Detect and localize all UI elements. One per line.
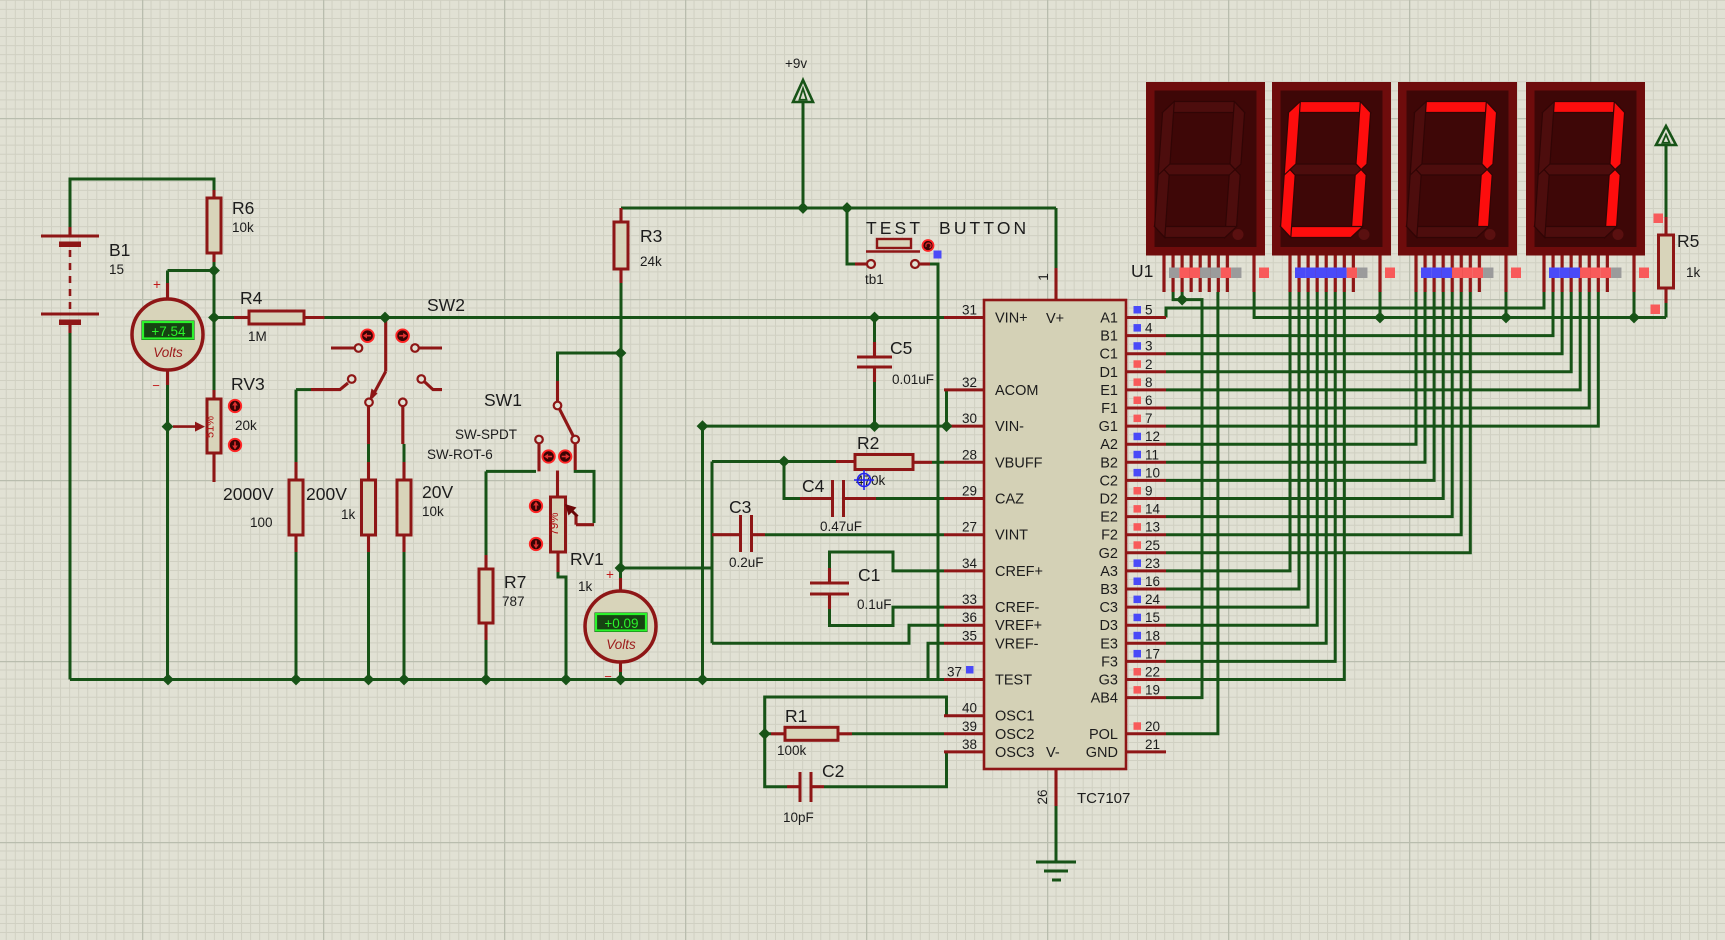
svg-text:1k: 1k bbox=[1686, 265, 1701, 280]
svg-text:A1: A1 bbox=[1100, 311, 1118, 327]
svg-text:E2: E2 bbox=[1100, 510, 1118, 526]
svg-text:D1: D1 bbox=[1099, 365, 1118, 381]
svg-text:0.01uF: 0.01uF bbox=[892, 372, 934, 387]
svg-text:2: 2 bbox=[1145, 357, 1153, 372]
svg-text:17: 17 bbox=[1145, 646, 1160, 661]
svg-text:C4: C4 bbox=[802, 476, 825, 496]
svg-text:OSC3: OSC3 bbox=[995, 745, 1035, 761]
svg-text:D2: D2 bbox=[1099, 492, 1118, 508]
svg-text:SW-ROT-6: SW-ROT-6 bbox=[427, 447, 493, 462]
svg-text:32: 32 bbox=[962, 375, 977, 390]
svg-text:26: 26 bbox=[1035, 789, 1050, 804]
svg-text:CREF+: CREF+ bbox=[995, 564, 1043, 580]
svg-text:U1: U1 bbox=[1131, 261, 1153, 281]
svg-text:B3: B3 bbox=[1100, 582, 1118, 598]
svg-text:7: 7 bbox=[1145, 411, 1153, 426]
svg-text:10k: 10k bbox=[232, 220, 254, 235]
svg-text:TC7107: TC7107 bbox=[1077, 790, 1130, 807]
svg-text:18: 18 bbox=[1145, 628, 1160, 643]
svg-text:36: 36 bbox=[962, 610, 977, 625]
svg-text:−: − bbox=[152, 378, 160, 393]
svg-text:G1: G1 bbox=[1099, 419, 1118, 435]
svg-text:SW2: SW2 bbox=[427, 295, 465, 315]
svg-text:22: 22 bbox=[1145, 665, 1160, 680]
svg-text:VIN+: VIN+ bbox=[995, 311, 1028, 327]
svg-text:C1: C1 bbox=[1099, 347, 1118, 363]
svg-text:VREF-: VREF- bbox=[995, 636, 1039, 652]
svg-text:R5: R5 bbox=[1677, 231, 1699, 251]
svg-text:3: 3 bbox=[1145, 339, 1153, 354]
svg-text:ACOM: ACOM bbox=[995, 383, 1039, 399]
svg-text:21: 21 bbox=[1145, 737, 1160, 752]
svg-text:R6: R6 bbox=[232, 198, 254, 218]
svg-text:40: 40 bbox=[962, 701, 977, 716]
svg-text:23: 23 bbox=[1145, 556, 1160, 571]
svg-text:0.47uF: 0.47uF bbox=[820, 519, 862, 534]
svg-text:D3: D3 bbox=[1099, 618, 1118, 634]
svg-text:19: 19 bbox=[1145, 683, 1160, 698]
svg-text:B1: B1 bbox=[1100, 329, 1118, 345]
svg-text:5: 5 bbox=[1145, 303, 1153, 318]
svg-text:+7.54: +7.54 bbox=[151, 324, 186, 339]
svg-text:29: 29 bbox=[962, 484, 977, 499]
svg-text:OSC1: OSC1 bbox=[995, 709, 1035, 725]
svg-text:VBUFF: VBUFF bbox=[995, 455, 1043, 471]
svg-text:AB4: AB4 bbox=[1091, 691, 1118, 707]
svg-text:0.1uF: 0.1uF bbox=[857, 597, 892, 612]
svg-text:G2: G2 bbox=[1099, 546, 1118, 562]
svg-text:G3: G3 bbox=[1099, 673, 1118, 689]
svg-text:POL: POL bbox=[1089, 727, 1118, 743]
svg-text:31: 31 bbox=[962, 303, 977, 318]
svg-text:24k: 24k bbox=[640, 254, 662, 269]
svg-text:20: 20 bbox=[1145, 719, 1160, 734]
svg-text:A2: A2 bbox=[1100, 437, 1118, 453]
svg-text:8: 8 bbox=[1145, 375, 1153, 390]
svg-text:+9v: +9v bbox=[785, 56, 807, 71]
svg-text:F1: F1 bbox=[1101, 401, 1118, 417]
svg-text:35: 35 bbox=[962, 628, 977, 643]
svg-text:GND: GND bbox=[1086, 745, 1118, 761]
svg-text:TEST: TEST bbox=[995, 673, 1032, 689]
svg-text:RV1: RV1 bbox=[570, 549, 604, 569]
svg-text:F3: F3 bbox=[1101, 654, 1118, 670]
svg-text:R3: R3 bbox=[640, 226, 662, 246]
svg-text:37: 37 bbox=[947, 665, 962, 680]
svg-text:C2: C2 bbox=[822, 761, 844, 781]
svg-text:51%: 51% bbox=[205, 416, 217, 438]
svg-text:C3: C3 bbox=[729, 497, 751, 517]
svg-text:R1: R1 bbox=[785, 706, 807, 726]
svg-text:16: 16 bbox=[1145, 574, 1160, 589]
svg-text:30: 30 bbox=[962, 411, 977, 426]
svg-text:VINT: VINT bbox=[995, 528, 1028, 544]
svg-text:13: 13 bbox=[1145, 520, 1160, 535]
svg-text:−: − bbox=[604, 669, 612, 684]
svg-text:F2: F2 bbox=[1101, 528, 1118, 544]
svg-text:79%: 79% bbox=[549, 512, 561, 535]
svg-text:C2: C2 bbox=[1099, 473, 1118, 489]
svg-text:12: 12 bbox=[1145, 429, 1160, 444]
svg-text:R7: R7 bbox=[504, 572, 526, 592]
svg-text:9: 9 bbox=[1145, 484, 1153, 499]
svg-text:20V: 20V bbox=[422, 482, 453, 502]
svg-text:24: 24 bbox=[1145, 592, 1161, 607]
svg-text:6: 6 bbox=[1145, 393, 1153, 408]
svg-text:33: 33 bbox=[962, 592, 977, 607]
svg-text:100k: 100k bbox=[777, 743, 807, 758]
svg-text:C1: C1 bbox=[858, 565, 880, 585]
svg-text:1: 1 bbox=[1036, 273, 1051, 281]
svg-text:CAZ: CAZ bbox=[995, 492, 1024, 508]
svg-text:VIN-: VIN- bbox=[995, 419, 1024, 435]
svg-text:V-: V- bbox=[1046, 745, 1060, 761]
svg-text:A3: A3 bbox=[1100, 564, 1118, 580]
svg-text:20k: 20k bbox=[235, 418, 257, 433]
svg-text:34: 34 bbox=[962, 556, 978, 571]
svg-text:1M: 1M bbox=[248, 329, 267, 344]
svg-text:4: 4 bbox=[1145, 321, 1153, 336]
svg-text:27: 27 bbox=[962, 520, 977, 535]
svg-text:15: 15 bbox=[1145, 610, 1160, 625]
svg-text:B1: B1 bbox=[109, 240, 130, 260]
svg-text:25: 25 bbox=[1145, 538, 1160, 553]
svg-text:B2: B2 bbox=[1100, 455, 1118, 471]
svg-text:787: 787 bbox=[502, 594, 525, 609]
svg-text:R2: R2 bbox=[857, 433, 879, 453]
svg-text:SW-SPDT: SW-SPDT bbox=[455, 427, 517, 442]
svg-text:+: + bbox=[153, 277, 161, 292]
svg-text:E1: E1 bbox=[1100, 383, 1118, 399]
svg-text:10: 10 bbox=[1145, 465, 1160, 480]
svg-text:Volts: Volts bbox=[606, 637, 636, 652]
svg-text:R4: R4 bbox=[240, 288, 263, 308]
svg-text:+0.09: +0.09 bbox=[604, 616, 638, 631]
svg-text:VREF+: VREF+ bbox=[995, 618, 1042, 634]
svg-text:TEST BUTTON: TEST BUTTON bbox=[866, 218, 1029, 238]
svg-text:39: 39 bbox=[962, 719, 977, 734]
svg-text:0.2uF: 0.2uF bbox=[729, 555, 764, 570]
svg-text:Volts: Volts bbox=[153, 345, 183, 360]
svg-text:10k: 10k bbox=[422, 504, 444, 519]
svg-text:38: 38 bbox=[962, 737, 977, 752]
svg-text:15: 15 bbox=[109, 262, 124, 277]
svg-text:V+: V+ bbox=[1046, 311, 1064, 327]
svg-text:RV3: RV3 bbox=[231, 374, 265, 394]
svg-text:+: + bbox=[606, 567, 614, 582]
svg-text:1k: 1k bbox=[578, 579, 593, 594]
svg-text:14: 14 bbox=[1145, 502, 1161, 517]
svg-text:100: 100 bbox=[250, 515, 273, 530]
svg-text:tb1: tb1 bbox=[865, 272, 884, 287]
svg-text:C5: C5 bbox=[890, 338, 912, 358]
svg-text:10pF: 10pF bbox=[783, 810, 814, 825]
svg-text:SW1: SW1 bbox=[484, 390, 522, 410]
svg-text:C3: C3 bbox=[1099, 600, 1118, 616]
svg-text:28: 28 bbox=[962, 447, 977, 462]
svg-text:200V: 200V bbox=[306, 484, 347, 504]
svg-text:OSC2: OSC2 bbox=[995, 727, 1035, 743]
svg-text:E3: E3 bbox=[1100, 636, 1118, 652]
svg-text:2000V: 2000V bbox=[223, 484, 274, 504]
svg-text:CREF-: CREF- bbox=[995, 600, 1039, 616]
svg-text:11: 11 bbox=[1145, 447, 1159, 462]
svg-text:1k: 1k bbox=[341, 507, 356, 522]
